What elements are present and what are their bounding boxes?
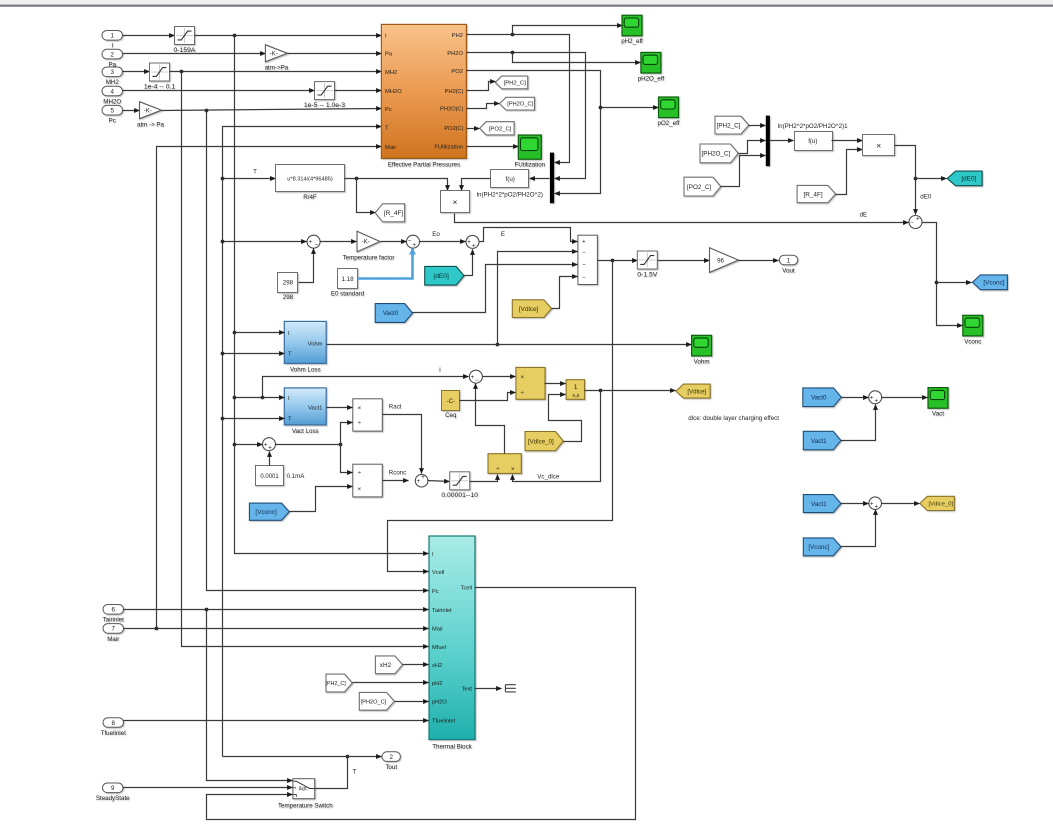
goto [PH2O_C] xyxy=(500,97,535,110)
goto [Vdlce] xyxy=(676,384,710,398)
svg-text:dlce: double layer charging ef: dlce: double layer charging effect xyxy=(688,415,779,422)
sum I-Idlce xyxy=(469,370,482,384)
divide Ract xyxy=(353,399,383,431)
svg-text:PO2: PO2 xyxy=(451,69,463,75)
wire integrator out to [Vdlce] xyxy=(585,390,676,392)
svg-text:Eo: Eo xyxy=(432,231,440,238)
wire PH2|C| to goto xyxy=(467,82,496,91)
wire f(u) to product (down) xyxy=(462,179,491,191)
wire Pc to Effective Partial Pressures xyxy=(162,109,382,111)
wire [PH2_C] to mux2 xyxy=(749,125,766,127)
wire I to Vact Loss xyxy=(235,397,285,399)
svg-text:Vact: Vact xyxy=(932,411,944,418)
wire [PH2O_C] to Thermal pH2O xyxy=(395,701,429,703)
svg-text:I: I xyxy=(111,43,113,50)
svg-text:+: + xyxy=(870,396,874,402)
saturation 0-159A xyxy=(174,27,196,54)
subsystem Vact Loss xyxy=(284,388,326,435)
wire port5 to gain atm -> Pa xyxy=(123,110,140,112)
wire dE sum out xyxy=(923,223,963,326)
wire product1 to dE sum xyxy=(455,214,909,223)
svg-text:−: − xyxy=(475,378,479,384)
wire I to Vohm Loss xyxy=(235,332,285,334)
wire I to sum C xyxy=(235,444,263,446)
svg-text:1: 1 xyxy=(111,33,115,40)
junction Pc line xyxy=(205,109,209,113)
svg-text:Vact0: Vact0 xyxy=(383,310,399,317)
wire T net vertical xyxy=(223,127,382,757)
subsystem Vohm Loss xyxy=(284,321,326,373)
svg-text:+: + xyxy=(416,479,420,485)
svg-text:Tfuelinlet: Tfuelinlet xyxy=(101,730,126,737)
svg-text:[dE0]: [dE0] xyxy=(961,176,976,183)
from Vact0 (right) xyxy=(803,388,842,407)
svg-text:Pa: Pa xyxy=(385,51,393,57)
svg-text:1: 1 xyxy=(574,384,578,391)
product Product1 (RT/4F * ln) xyxy=(441,191,470,213)
wire [PH2_C] to Thermal pH2 xyxy=(353,682,429,684)
input port 1 xyxy=(102,31,123,50)
wire sum Eo to sum E xyxy=(420,241,466,243)
svg-text:[Vdlce_0]: [Vdlce_0] xyxy=(929,502,954,508)
saturation 1e-4 -- 0.1 xyxy=(144,63,176,90)
mux Mux1 (flipped) xyxy=(550,153,554,204)
wire Vohm out to scope xyxy=(327,344,692,346)
svg-text:−: − xyxy=(582,250,586,256)
junction dE0 xyxy=(914,177,918,181)
svg-text:−: − xyxy=(408,239,412,245)
svg-text:+: + xyxy=(308,240,312,246)
junction PO2 xyxy=(599,106,603,110)
junction sum C out xyxy=(339,443,343,447)
wire [Vconc] to Rconc xyxy=(290,487,353,512)
svg-text:pH2O: pH2O xyxy=(432,699,447,705)
svg-text:PH2O|C|: PH2O|C| xyxy=(440,107,463,113)
wire PH2 out xyxy=(467,35,570,163)
svg-text:Pc: Pc xyxy=(385,107,392,113)
wire Mair branch vertical to orange Mair xyxy=(157,147,382,629)
svg-text:5: 5 xyxy=(111,108,115,115)
svg-text:[R_4F]: [R_4F] xyxy=(384,210,403,217)
wire PO2 to scope pO2_eff xyxy=(601,107,659,109)
from Vact1 (right upper) xyxy=(803,431,841,450)
svg-text:Vohm: Vohm xyxy=(694,358,710,365)
wire Vact0 to sum Vact xyxy=(842,397,869,399)
from [PH2O_C] bottom xyxy=(359,692,394,710)
svg-text:+: + xyxy=(264,442,268,448)
svg-text:−: − xyxy=(582,263,586,269)
svg-text:1e-5 -- 1.0e-3: 1e-5 -- 1.0e-3 xyxy=(304,102,345,109)
sum dE0-dE xyxy=(909,216,922,229)
from [Vconc] lower-left xyxy=(249,503,289,520)
svg-text:3: 3 xyxy=(111,69,115,76)
junction Tairinlet branch xyxy=(205,608,209,612)
svg-text:Tout: Tout xyxy=(385,764,397,771)
scope FUtilization xyxy=(514,135,545,169)
terminator Text xyxy=(505,685,515,692)
svg-text:+: + xyxy=(582,240,586,246)
input port 9 SteadyState xyxy=(96,783,130,802)
svg-text:Pc: Pc xyxy=(432,589,439,595)
constant 0.0001 xyxy=(256,466,284,486)
svg-text:Vact1: Vact1 xyxy=(308,406,322,412)
junction I to Vohm xyxy=(233,331,237,335)
wire Mair to Thermal xyxy=(124,628,429,630)
wire R/4F out xyxy=(345,179,448,191)
wire sum E2 to product xyxy=(483,376,516,378)
svg-text:4: 4 xyxy=(111,88,115,95)
svg-text:f(u): f(u) xyxy=(506,176,515,183)
svg-text:Effective Partial Pressures: Effective Partial Pressures xyxy=(388,162,460,169)
wire T to sum A xyxy=(223,241,307,243)
svg-text:1: 1 xyxy=(787,257,791,264)
svg-text:PH2|C|: PH2|C| xyxy=(445,89,463,95)
junction Vcell xyxy=(611,259,615,263)
wire Vact1 to Ract divide xyxy=(327,407,353,409)
svg-text:×: × xyxy=(511,466,515,473)
constant Ceq -C- xyxy=(442,391,460,420)
svg-text:[PH2O_C]: [PH2O_C] xyxy=(361,699,387,705)
wire T to R/4F xyxy=(223,178,276,180)
from [Vdlce_0] xyxy=(525,432,563,451)
junction PH2 xyxy=(511,33,515,37)
svg-text:E: E xyxy=(501,231,505,238)
saturation 0-1.5V xyxy=(637,251,657,278)
svg-text:atm -> Pa: atm -> Pa xyxy=(137,121,165,128)
sum T-298 xyxy=(307,235,320,248)
goto [PO2_C] xyxy=(480,122,514,135)
svg-text:[PH2_C]: [PH2_C] xyxy=(325,681,346,687)
svg-text:+: + xyxy=(268,445,272,451)
wire Vconc to goto xyxy=(937,282,972,284)
wire Text to terminator xyxy=(475,688,502,690)
svg-text:Tfuelinlet: Tfuelinlet xyxy=(432,719,455,725)
wire Pa to Effective Partial Pressures xyxy=(288,53,382,55)
wire 0.00001--10 to Vc_dlce xyxy=(470,475,498,482)
svg-text:pH2_eff: pH2_eff xyxy=(621,38,643,45)
product Divide (yellow) xyxy=(516,367,545,399)
svg-text:MH2: MH2 xyxy=(106,79,120,86)
svg-text:Mair: Mair xyxy=(385,145,396,151)
svg-text:SteadyState: SteadyState xyxy=(96,795,130,802)
wire 0-1.5V to gain 96 xyxy=(658,260,710,262)
from Vact0 xyxy=(375,304,412,323)
svg-text:0.1mA: 0.1mA xyxy=(287,473,306,480)
svg-text:T: T xyxy=(288,351,292,357)
svg-text:Vact1: Vact1 xyxy=(811,438,827,445)
svg-text:dE: dE xyxy=(860,212,868,219)
junction I branch up xyxy=(261,396,265,400)
svg-text:+: + xyxy=(421,475,425,481)
svg-text:7: 7 xyxy=(112,626,116,633)
svg-text:MH2O: MH2O xyxy=(385,89,402,95)
junction Vdlce xyxy=(599,389,603,393)
svg-text:[PO2_C]: [PO2_C] xyxy=(489,126,512,132)
svg-text:[R_4F]: [R_4F] xyxy=(803,191,822,198)
goto [dE0] xyxy=(947,171,982,186)
svg-text:298: 298 xyxy=(283,294,294,301)
wire Vdlce to Vc_dlce product xyxy=(513,391,601,482)
gain 96 xyxy=(710,248,739,273)
wire Vact1 to sum Vact xyxy=(841,405,876,441)
svg-text:xH2: xH2 xyxy=(380,662,392,669)
gain Temperature factor (-K-) xyxy=(343,231,395,261)
divide Rconc xyxy=(353,464,383,497)
svg-text:96: 96 xyxy=(717,257,724,264)
svg-text:Text: Text xyxy=(462,686,473,692)
junction T to Vohm xyxy=(221,352,225,356)
svg-text:dE0: dE0 xyxy=(920,193,932,200)
svg-text:E0 standard: E0 standard xyxy=(331,290,365,297)
svg-text:2: 2 xyxy=(389,754,393,761)
svg-text:298: 298 xyxy=(283,280,294,287)
gain atm -> Pa (-K-) xyxy=(137,102,165,129)
wire sum to goto [Vdlce_0] xyxy=(882,503,920,505)
from [Vconc] (right) xyxy=(803,538,841,556)
from [dE0] xyxy=(425,266,464,285)
wire Temperature factor to sum B xyxy=(381,241,407,243)
wire [PH2O_C] to mux2 xyxy=(739,141,766,154)
fcn f(u) ln1 xyxy=(795,132,833,151)
wire f(u)2 to product2 xyxy=(832,140,863,142)
svg-text:×: × xyxy=(357,486,361,493)
junction Tout xyxy=(346,755,350,759)
svg-text:Tairinlet: Tairinlet xyxy=(103,617,125,624)
svg-text:u*8.314/(4*96485): u*8.314/(4*96485) xyxy=(287,177,333,183)
wire mux2 to f(u)2 xyxy=(770,140,794,142)
wire PH2O to scope pH2O_eff xyxy=(513,53,641,63)
wire Tairinlet to switch xyxy=(207,610,293,781)
svg-text:Vcell: Vcell xyxy=(432,570,444,576)
svg-text:FUtilization: FUtilization xyxy=(434,145,463,151)
svg-text:PH2O: PH2O xyxy=(447,51,463,57)
junction Vohm branch xyxy=(496,343,500,347)
scope Vohm xyxy=(692,335,712,365)
wire port3 to saturation 1e-4 xyxy=(123,71,150,73)
window top strip xyxy=(0,0,1053,5)
svg-text:÷: ÷ xyxy=(496,466,500,473)
svg-text:×: × xyxy=(453,197,458,207)
svg-text:xH2: xH2 xyxy=(432,663,442,669)
svg-text:0.0001: 0.0001 xyxy=(260,474,279,480)
constant E0 standard 1.18 xyxy=(331,269,365,298)
svg-text:Temperature factor: Temperature factor xyxy=(343,254,395,261)
svg-text:×: × xyxy=(876,140,881,150)
svg-text:Vohm: Vohm xyxy=(308,342,323,348)
product Product2 xyxy=(863,135,895,156)
svg-text:[PH2O_C]: [PH2O_C] xyxy=(507,102,533,108)
wire Vohm to add block xyxy=(498,252,578,345)
goto [Vconc] xyxy=(972,275,1007,290)
scope pH2_eff xyxy=(621,15,643,45)
svg-text:Tairinlet: Tairinlet xyxy=(432,608,452,614)
svg-text:+: + xyxy=(412,243,416,249)
wire Vcell vertical xyxy=(388,261,613,572)
wire [Vdlce_0] to integrator x0 xyxy=(549,395,582,442)
svg-text:R/4F: R/4F xyxy=(303,194,317,201)
sum Vdlce_0 xyxy=(869,497,882,510)
svg-text:0-159A: 0-159A xyxy=(174,47,196,54)
svg-text:Vohm Loss: Vohm Loss xyxy=(290,366,321,373)
svg-text:ln(PH2^2*pO2/PH2O^2): ln(PH2^2*pO2/PH2O^2) xyxy=(477,192,543,199)
svg-text:6: 6 xyxy=(112,607,116,614)
input port 2 xyxy=(102,49,123,68)
output port 2 Tout xyxy=(382,752,400,771)
wire port2 to gain atm->Pa xyxy=(123,53,266,55)
gain atm->Pa (-K-) xyxy=(265,45,289,72)
svg-text:x₀s: x₀s xyxy=(572,393,580,399)
subsystem Thermal Block xyxy=(429,536,475,751)
wire sum A to Temperature factor xyxy=(321,241,357,243)
from [PH2O_C] xyxy=(700,144,738,163)
junction R/4F out xyxy=(355,177,359,181)
svg-text:Vact1: Vact1 xyxy=(811,501,827,508)
svg-text:Tcell: Tcell xyxy=(461,586,472,592)
svg-text:T: T xyxy=(288,416,292,422)
svg-text:[Vconc]: [Vconc] xyxy=(983,280,1004,287)
goto [PH2_C] xyxy=(495,76,527,89)
wire I to Effective Partial Pressures xyxy=(195,35,382,37)
svg-text:0.00001--10: 0.00001--10 xyxy=(441,492,478,499)
sum Vact xyxy=(869,391,882,405)
junction T to sum 298 xyxy=(221,240,225,244)
wire sum C to Ract divide xyxy=(341,423,353,445)
wire PO2 out xyxy=(467,71,601,194)
input port 3 xyxy=(102,67,123,86)
input port 8 Tfuelinlet xyxy=(101,718,126,737)
svg-text:Ract: Ract xyxy=(389,403,402,410)
svg-text:FUtilization: FUtilization xyxy=(514,162,545,169)
subsystem Effective Partial Pressures xyxy=(381,24,466,168)
wire product2 out to dE0 xyxy=(895,146,916,215)
wire MH2 branch vertical to Mfuel xyxy=(182,72,429,647)
svg-text:1.18: 1.18 xyxy=(341,276,354,283)
svg-text:atm->Pa: atm->Pa xyxy=(265,64,289,71)
svg-text:+: + xyxy=(874,399,878,405)
from xH2 xyxy=(375,656,402,674)
wire Rconc out to sum D xyxy=(383,480,409,482)
svg-text:Mair: Mair xyxy=(107,636,119,643)
fcn R/4F u*8.314/(4*96485) xyxy=(276,165,345,201)
wire MH2 to Effective Partial Pressures xyxy=(170,71,382,73)
svg-text:MH2O: MH2O xyxy=(103,98,121,105)
svg-text:2: 2 xyxy=(111,51,115,58)
wire Pc branch vertical to Thermal Pc xyxy=(207,111,429,591)
wire sum C out xyxy=(276,444,341,446)
wire sum Vact to scope xyxy=(882,397,928,399)
output port 1 Vout xyxy=(779,255,797,274)
wire [R_4F] to product2 xyxy=(836,150,863,195)
input port 4 xyxy=(102,86,123,105)
svg-text:8: 8 xyxy=(112,720,116,727)
junction Mair branch xyxy=(155,627,159,631)
wire Ceq to product xyxy=(460,393,516,401)
svg-text:Thermal Block: Thermal Block xyxy=(432,744,472,751)
svg-text:×: × xyxy=(520,374,524,381)
input port 5 xyxy=(102,105,123,124)
svg-text:−: − xyxy=(582,275,586,281)
wire I to sum I-Idlce xyxy=(263,377,469,398)
svg-text:Vc_dlce: Vc_dlce xyxy=(537,473,560,480)
wire MH2O to Effective Partial Pressures xyxy=(335,90,382,92)
wire [Vconc] to sum Vdlce_0 xyxy=(841,510,876,547)
svg-text:[PH2_C]: [PH2_C] xyxy=(717,122,741,129)
wire T to Vohm Loss xyxy=(223,353,285,355)
from [PO2_C] xyxy=(684,177,721,196)
svg-text:PH2: PH2 xyxy=(452,33,463,39)
integrator 1/x0s (yellow) xyxy=(566,380,584,400)
wire [dE0] to sum E xyxy=(464,250,473,276)
svg-text:1e-4 -- 0.1: 1e-4 -- 0.1 xyxy=(144,83,176,90)
wire switch out to T net xyxy=(223,757,348,789)
wire add block to 0-1.5V xyxy=(598,260,638,262)
wire dE0 to goto [dE0] xyxy=(916,178,947,180)
wire 0.0001 to sum C xyxy=(269,452,271,466)
svg-text:−: − xyxy=(315,242,319,248)
junction I to Vact xyxy=(233,396,237,400)
svg-text:-K-: -K- xyxy=(270,51,278,57)
wire sum E to add block xyxy=(480,228,578,242)
wire R/4F to goto [R_4F] xyxy=(357,179,376,213)
wire Tcell loop xyxy=(207,588,636,820)
svg-text:Vact Loss: Vact Loss xyxy=(292,428,319,435)
from Vact1 (right lower) xyxy=(803,495,841,513)
svg-text:PO2|C|: PO2|C| xyxy=(444,126,463,132)
wire PH2 to scope pH2_eff xyxy=(513,26,623,35)
svg-text:+: + xyxy=(870,501,874,507)
from [PH2_C] xyxy=(715,116,749,134)
svg-text:Ceq: Ceq xyxy=(445,412,457,419)
wire mux1 to f(u) xyxy=(530,178,550,180)
svg-text:-C-: -C- xyxy=(447,399,455,405)
junction MH2 line xyxy=(180,70,184,74)
wire PH2O out xyxy=(467,53,586,179)
input port 6 Tairinlet xyxy=(103,605,125,624)
wire [PO2_C] to mux2 xyxy=(721,156,766,187)
wire SteadyState to switch xyxy=(123,787,293,789)
wire Vact1 to sum Vdlce_0 xyxy=(841,503,869,505)
svg-text:[Vconc]: [Vconc] xyxy=(255,509,277,516)
svg-text:[PH2_C]: [PH2_C] xyxy=(504,81,527,87)
sum Ract+Rconc xyxy=(415,474,428,487)
svg-text:T: T xyxy=(353,769,357,776)
wire to Tout xyxy=(348,756,382,758)
switch Temperature Switch xyxy=(278,779,333,810)
svg-text:+: + xyxy=(467,240,471,246)
svg-text:pH2O_eff: pH2O_eff xyxy=(638,75,665,82)
wire Vact0 to add block xyxy=(413,265,578,313)
svg-text:[PH2O_C]: [PH2O_C] xyxy=(702,151,731,158)
svg-text:Rconc: Rconc xyxy=(389,470,407,477)
svg-text:[Vdlce]: [Vdlce] xyxy=(687,388,706,395)
svg-text:&gt;: &gt; xyxy=(299,786,308,792)
wire Ract out to sum D xyxy=(383,415,422,474)
sum I+0.0001 xyxy=(263,438,276,452)
saturation 0.00001--10 xyxy=(441,472,478,499)
svg-text:pO2_eff: pO2_eff xyxy=(658,120,680,127)
svg-text:T: T xyxy=(253,168,257,175)
svg-text:÷: ÷ xyxy=(520,390,524,397)
svg-text:T: T xyxy=(385,126,389,132)
svg-text:Vconc: Vconc xyxy=(964,338,981,345)
wire Tfuelinlet to Thermal xyxy=(124,720,429,722)
scope Vconc xyxy=(963,315,983,345)
svg-text:Vact0: Vact0 xyxy=(811,394,827,401)
svg-text:0-1.5V: 0-1.5V xyxy=(637,271,657,278)
svg-text:Pc: Pc xyxy=(109,118,116,125)
wire PH2O|C| to goto xyxy=(467,104,500,109)
svg-text:9: 9 xyxy=(111,785,115,792)
